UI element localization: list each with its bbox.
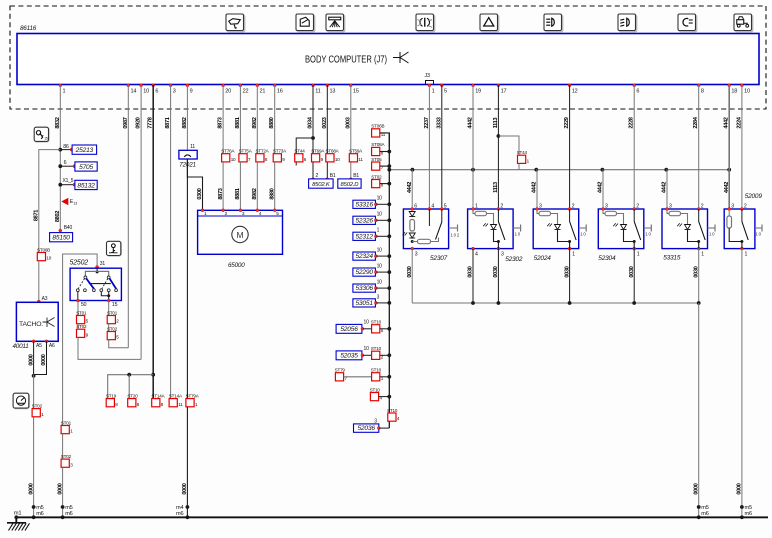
svg-text:0000: 0000 [28,354,34,365]
svg-text:13: 13 [330,89,336,95]
dashed frame of body computer area [10,6,766,109]
lead to bus [380,375,391,379]
branch to ST44 [296,136,315,165]
svg-text:52024: 52024 [534,255,552,262]
svg-text:31: 31 [100,261,106,267]
svg-text:1: 1 [432,89,435,95]
device 52326 [353,212,391,225]
relay 52307 [403,203,460,262]
svg-text:1 0 2: 1 0 2 [451,232,460,237]
wire 8873 to motor [222,85,224,154]
svg-text:52035: 52035 [340,353,358,360]
wire 8871 vertical [170,85,172,399]
relay feed bus 4442 [387,168,729,172]
chain stub ST06B to bus [380,133,390,147]
device 53051 [353,294,391,307]
svg-text:ST14A: ST14A [169,393,183,398]
svg-text:3: 3 [731,203,734,209]
BC pin 5 / wire 3333 [436,84,447,129]
wire to ground m5/m6 (tacho) [33,375,35,517]
splice E13 [61,198,77,206]
svg-text:10: 10 [377,212,383,218]
icon towing [734,14,753,32]
svg-text:6: 6 [155,89,158,95]
svg-text:53051: 53051 [355,300,373,307]
stub ST02 [380,182,391,186]
svg-text:0000: 0000 [28,483,34,494]
lead 52035 to bus [380,353,391,357]
connector ST10 [370,387,383,400]
svg-text:ST01: ST01 [76,310,87,315]
svg-text:65000: 65000 [228,262,245,269]
BC pin 10 / wire 0920 [136,84,150,129]
svg-text:17: 17 [501,89,507,95]
svg-text:m6: m6 [36,511,43,517]
ground chain from 52502 pin 31 [63,254,98,426]
connector ST72A [256,149,270,162]
icon rearwiper [296,14,315,32]
svg-text:m5: m5 [36,505,43,511]
connector ST75A [239,149,253,162]
connector ST01 [107,310,119,323]
connector ST79A [186,393,200,406]
svg-text:21: 21 [260,89,266,95]
BC pin 1 / wire 8832 [55,84,66,129]
svg-text:10: 10 [46,256,51,261]
svg-text:ST75A: ST75A [239,149,253,154]
svg-text:0000: 0000 [57,483,63,494]
bus drop 4442 [407,168,414,209]
wire to relay [472,85,474,209]
svg-text:10: 10 [364,346,370,352]
svg-text:4: 4 [475,251,478,257]
svg-text:16: 16 [277,89,283,95]
key icon (ignition) [107,241,122,256]
BC pin 13 / wire 0023 [322,84,336,129]
svg-text:10: 10 [377,280,383,286]
wire to relay [633,85,635,209]
svg-text:85132: 85132 [77,183,95,190]
node X1_5 with 85132 [58,178,97,189]
svg-text:20: 20 [225,89,231,95]
distribution bus vertical [388,133,390,428]
ST44 to bus [518,163,520,169]
BC pin 20 / wire 8873 [218,84,232,129]
svg-text:3: 3 [173,89,176,95]
connector ST59A [349,149,363,162]
wire to relay [698,85,700,209]
device 52312 [353,228,391,241]
link ST79 to ST10 [344,376,372,378]
wire 0300 elbow to motor pin 1 [187,159,203,210]
icon hazard [480,14,499,32]
device 52056 [336,320,372,334]
svg-text:11: 11 [315,89,320,95]
svg-text:ST73A: ST73A [273,149,287,154]
svg-text:2: 2 [316,173,319,179]
wire to relay [428,85,430,209]
connector ST08A [371,142,385,155]
wire to relay [497,85,499,209]
node 86 with fuse 25213 [58,144,96,155]
svg-text:ST01: ST01 [61,420,72,425]
wire 8880 to motor [274,85,276,154]
svg-text:15: 15 [112,302,118,308]
connector ST68A [326,149,341,162]
connector ST02 [107,326,119,339]
wiper motor 65000 [198,209,283,269]
svg-text:ST10: ST10 [371,320,382,325]
svg-text:m4: m4 [176,505,183,511]
svg-text:0030: 0030 [468,266,474,277]
svg-text:0030: 0030 [407,266,413,277]
svg-text:8873: 8873 [218,188,224,199]
wire 7778 vertical [152,85,154,399]
connector ST10 [371,368,384,381]
svg-text:8502.D: 8502.D [341,182,360,188]
BC pin 15 / wire 0003 [345,84,359,129]
svg-text:ST02: ST02 [32,403,43,408]
svg-text:ST10: ST10 [371,346,382,351]
svg-text:14: 14 [131,89,137,95]
BC pin 19 / wire 4442 [468,84,482,129]
svg-text:3: 3 [377,294,380,300]
BC pin 3 / wire 8871 [165,84,176,129]
wire to relay [569,85,571,209]
svg-text:ST59A: ST59A [349,149,363,154]
ground wire m4/m6 [176,407,189,519]
connector ST69A [311,149,325,162]
device 52290 [353,264,391,277]
connector ST44 [517,150,530,163]
svg-text:ST02: ST02 [107,326,118,331]
svg-text:3: 3 [669,203,672,209]
svg-text:1 0: 1 0 [580,232,586,237]
wire 8832 from pin 1 [59,85,61,231]
wire down to ST79A and ground m4/m6 [186,159,188,399]
svg-text:50: 50 [81,302,87,308]
wire to ground m5/m6 [57,467,72,519]
wire 8873 lower segment [218,162,224,210]
svg-text:9: 9 [190,89,193,95]
svg-text:11: 11 [190,144,195,150]
svg-text:6: 6 [636,89,639,95]
svg-text:85150: 85150 [52,235,70,242]
svg-text:ST02: ST02 [371,174,382,179]
svg-text:ST01: ST01 [107,310,118,315]
ground node m5/m6 [32,505,44,519]
svg-text:4442: 4442 [598,182,604,193]
wire to relay [741,85,743,209]
connector ST01 [61,420,73,433]
svg-text:1: 1 [475,203,478,209]
svg-text:B1: B1 [353,173,359,179]
svg-text:ST68A: ST68A [326,149,340,154]
svg-text:3: 3 [415,251,418,257]
svg-text:52502: 52502 [70,260,89,267]
wire to relay [441,85,443,209]
svg-text:10: 10 [377,264,383,270]
svg-text:2: 2 [744,203,747,209]
device 53316 [353,196,391,209]
svg-text:10: 10 [744,89,750,95]
svg-text:ST20: ST20 [127,393,138,398]
svg-text:22: 22 [243,89,249,95]
svg-text:B40: B40 [64,225,73,231]
wire 0920 link to pin 50 [78,337,141,359]
svg-text:1 0: 1 0 [645,232,651,237]
connector ST14A [169,393,183,406]
wire 0987 link to pin 15 [109,340,129,348]
connector ST79 [335,368,348,381]
svg-text:1 0: 1 0 [756,232,762,237]
svg-text:m5: m5 [745,505,752,511]
wire to ground m5/m6 (relays) [693,303,708,519]
relay 52009 [724,193,762,257]
svg-text:ST69A: ST69A [311,149,325,154]
lead 52056 to bus [380,327,391,331]
svg-text:0300: 0300 [197,188,203,199]
svg-text:ST10: ST10 [370,387,381,392]
BC pin 6 / wire 7778 [148,84,159,129]
BC pin 22 / wire 8881 [235,84,249,129]
svg-text:0000: 0000 [182,483,188,494]
connector ST19 [106,393,118,406]
svg-text:8982: 8982 [252,188,258,199]
svg-text:6: 6 [414,203,417,209]
svg-text:X1_5: X1_5 [63,178,74,184]
svg-text:1: 1 [63,89,66,95]
52502 pin 50 chain [77,302,79,316]
svg-text:BODY COMPUTER (J7): BODY COMPUTER (J7) [305,55,387,66]
svg-text:86: 86 [63,144,69,150]
BC pin 21 / wire 8982 [252,84,266,129]
wire 8880 lower segment [269,162,275,210]
branch 1113 to ST44 [497,134,520,155]
svg-text:m6: m6 [745,511,752,517]
svg-text:ST06B: ST06B [371,124,384,129]
svg-text:8502.K: 8502.K [312,182,331,188]
svg-text:ST06B: ST06B [37,247,50,252]
svg-text:2: 2 [572,203,575,209]
svg-text:2: 2 [701,203,704,209]
svg-text:12: 12 [572,89,578,95]
connector ST06B [37,247,52,260]
svg-text:1: 1 [637,251,640,257]
svg-text:8802: 8802 [55,211,61,222]
svg-text:0030: 0030 [629,266,635,277]
svg-text:m6: m6 [65,511,72,517]
relay ground drop 0030 [468,249,475,305]
svg-text:52036: 52036 [357,425,375,432]
svg-text:ST44: ST44 [294,149,305,154]
svg-text:52307: 52307 [430,255,448,262]
connector ST76A [221,149,236,162]
svg-text:0000: 0000 [737,483,743,494]
tachometer 40011 [13,302,59,350]
svg-text:8871: 8871 [34,210,40,221]
node 6 with 5705 [58,160,97,171]
device 8502/K [309,173,336,188]
relay ground drop 0030 [407,249,413,303]
svg-text:ST10: ST10 [371,368,382,373]
52009 ground m5/m6 [737,249,752,520]
svg-text:52290: 52290 [355,269,373,276]
svg-text:1 0: 1 0 [515,232,521,237]
svg-text:5705: 5705 [79,164,93,171]
bus drop 4442 [662,168,668,209]
svg-text:2: 2 [500,203,503,209]
connector J3 marker [425,73,434,84]
wire 8881 lower segment [235,162,241,210]
relay 52024 [533,203,586,262]
icon fog [416,14,435,32]
svg-text:m6: m6 [176,511,183,517]
svg-text:25213: 25213 [75,147,94,154]
BC pin 12 / wire 2229 [564,84,578,129]
BC pin 14 / wire 0987 [123,84,137,129]
svg-text:52312: 52312 [355,233,373,240]
svg-text:A5: A5 [36,343,42,349]
svg-text:52326: 52326 [355,217,373,224]
device 53306 [353,280,391,293]
svg-text:8881: 8881 [235,188,241,199]
connector ST73A [273,149,287,162]
svg-text:ST19: ST19 [106,393,117,398]
svg-text:3: 3 [501,251,504,257]
BC pin 11 / wire 0034 [308,84,321,129]
stub ST05 [380,164,391,168]
wire between ST01 and ST02 [62,434,64,459]
wire 0987 vertical [127,85,129,348]
wire 8802 to B40 [55,211,73,232]
svg-text:TACHO.: TACHO. [19,321,43,328]
svg-text:3: 3 [539,203,542,209]
BC pin 1 / wire 2237 [424,84,435,129]
svg-text:52009: 52009 [745,193,763,200]
svg-text:2: 2 [636,203,639,209]
svg-text:10: 10 [335,157,340,162]
relay 52304 [598,203,651,262]
BC pin 6 / wire 2228 [629,84,640,129]
svg-text:m5: m5 [65,505,72,511]
relay 52302 [468,203,523,263]
wire 8871 branch to tachometer [34,150,61,253]
svg-text:10: 10 [143,89,149,95]
tacho ground wires 0000 [28,341,47,377]
svg-text:5: 5 [444,203,447,209]
svg-text:13: 13 [73,202,77,206]
svg-text:6: 6 [64,160,67,166]
icon lowbeam [544,14,563,32]
bus drop 4442 [598,168,605,209]
connector ST02 [371,174,383,187]
branch to ST19/ST20 [108,373,155,399]
svg-text:0030: 0030 [493,266,499,277]
wire 0023 [326,85,328,179]
body computer 86116 (J7) [17,25,759,85]
svg-text:52302: 52302 [505,256,523,263]
connector ST02 [76,324,88,337]
svg-text:4442: 4442 [407,182,413,193]
BC pin 18 / wire 4442 [724,84,738,129]
svg-text:1 0: 1 0 [709,232,715,237]
svg-text:0030: 0030 [693,266,699,277]
svg-text:52324: 52324 [355,253,373,260]
svg-text:ST14A: ST14A [151,393,165,398]
icon washer [326,14,345,32]
svg-text:10: 10 [377,248,383,254]
icon parklight [678,14,697,32]
svg-text:M: M [237,230,244,240]
wire 0003 [350,85,352,179]
connector ST02 [32,403,44,416]
main ground bar [16,516,768,518]
svg-text:ST79A: ST79A [186,393,200,398]
lead to bus [379,395,392,399]
connector ST14A [151,393,165,406]
svg-text:4: 4 [431,203,434,209]
svg-text:10: 10 [364,320,370,326]
svg-text:52056: 52056 [340,326,358,333]
svg-text:15: 15 [44,137,48,141]
svg-text:4442: 4442 [662,182,668,193]
svg-text:8: 8 [701,89,704,95]
connector ST01 [76,310,88,323]
svg-text:A6: A6 [49,343,55,349]
svg-text:0030: 0030 [564,266,570,277]
svg-text:1: 1 [701,251,704,257]
bus drop 4442 [532,168,538,209]
svg-text:0000: 0000 [41,354,47,365]
svg-text:4442: 4442 [532,182,538,193]
device 52035 [336,346,372,360]
connector ST44 [294,149,306,162]
second-level wire labels [493,182,730,193]
wire 8982 to motor [256,85,258,154]
icon wiper [226,14,245,32]
wire 8982 lower segment [252,162,258,210]
52502 pin 15 chain [108,302,110,316]
svg-text:5: 5 [444,89,447,95]
drop 53315 to ground [693,249,700,305]
svg-text:ST76A: ST76A [221,149,235,154]
BC pin 17 / wire 1113 [493,84,507,129]
ground symbol m1 [7,511,30,531]
svg-text:15: 15 [353,89,359,95]
svg-text:11: 11 [178,402,183,407]
svg-text:11: 11 [358,157,363,162]
wire 0034 [312,85,314,179]
svg-text:86116: 86116 [20,25,37,32]
wire 8871 to tacho pin A3 [37,261,47,303]
ignition switch 52502 [70,260,122,309]
relay ground drop 0030 [564,249,571,305]
svg-text:8880: 8880 [269,188,275,199]
BC pin 16 / wire 8880 [269,84,283,129]
device 52036 [354,419,390,433]
wire 4442 pin18 to bus end [728,85,730,209]
svg-text:10: 10 [231,157,236,162]
svg-text:m6: m6 [701,511,708,517]
svg-text:ST44: ST44 [517,150,528,155]
svg-text:m5: m5 [701,505,708,511]
relay ground drop 0030 [629,249,636,305]
svg-text:40011: 40011 [13,343,29,350]
svg-text:53315: 53315 [663,254,681,261]
connector ST10 [387,408,400,421]
BC pin 9 / wire 8882 [182,84,193,129]
